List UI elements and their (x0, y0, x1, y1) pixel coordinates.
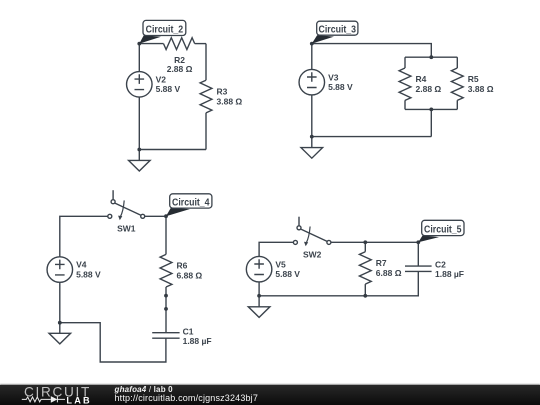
svg-text:V5: V5 (275, 259, 286, 269)
resistor R5 (451, 68, 463, 100)
svg-text:R4: R4 (416, 74, 427, 84)
wire V3 bottom stub (311, 95, 313, 137)
wire node down to R6 (165, 216, 167, 254)
node: circuit 3 top-left (310, 42, 314, 46)
switch SW1 (108, 190, 145, 220)
svg-text:V3: V3 (328, 72, 339, 82)
node: circuit 4 top (164, 214, 168, 218)
wire top rail left segment (139, 43, 163, 45)
wire V3 top stub (311, 44, 313, 70)
wire R7 bottom stub (364, 284, 366, 296)
flag box Circuit_4 (170, 194, 212, 208)
wire V4 bottom stub (59, 282, 61, 322)
wire right rail upper (205, 44, 207, 81)
wire top rail right segment (195, 43, 206, 45)
ground (circuit 3) (301, 137, 323, 159)
svg-text:Circuit_4: Circuit_4 (172, 196, 210, 208)
ground (circuit 5) (248, 296, 270, 318)
wire top rail (312, 44, 432, 58)
node: circuit 2 ground (137, 148, 141, 152)
node: circuit 2 top-left (137, 42, 141, 46)
wire bottom return path (60, 323, 166, 362)
node: circuit 5 R7 top (363, 240, 367, 244)
voltage source V3 (299, 69, 325, 95)
resistor R2 (164, 38, 195, 50)
node: circuit 3 parallel bottom (429, 108, 433, 112)
flag wedge Circuit_4 (166, 208, 190, 216)
svg-text:V2: V2 (156, 74, 167, 84)
CircuitLab logo (0, 384, 110, 405)
svg-text:3.88 Ω: 3.88 Ω (468, 84, 494, 94)
node: circuit 4 mid wire upper (164, 294, 168, 298)
wire switch to node rail (331, 241, 418, 243)
svg-text:C2: C2 (435, 260, 446, 270)
node: circuit 5 R7 bottom (363, 294, 367, 298)
svg-text:1.88 µF: 1.88 µF (183, 336, 212, 346)
footer url text (115, 393, 259, 403)
wire switch to left rail (60, 216, 108, 257)
resistor R6 (160, 254, 172, 287)
wire R4 bottom stub (404, 100, 406, 109)
node: circuit 4 mid wire lower (164, 307, 168, 311)
wire R4 top stub (404, 57, 406, 68)
wire V5 top stub to switch (259, 242, 293, 256)
wire bottom rail (259, 271, 418, 295)
wire R5 bottom stub (456, 100, 458, 109)
flag wedge Circuit_2 (139, 35, 161, 43)
resistor R7 (359, 252, 371, 284)
ground (circuit 2) (129, 150, 151, 172)
svg-text:5.88 V: 5.88 V (275, 269, 300, 279)
wire C2 top stub (417, 242, 419, 266)
wire bottom rail (139, 149, 206, 151)
flag box Circuit_3 (317, 21, 358, 35)
svg-text:5.88 V: 5.88 V (156, 84, 181, 94)
wire right down to bottom rail (430, 109, 432, 136)
svg-text:V4: V4 (76, 260, 87, 270)
svg-text:2.88 Ω: 2.88 Ω (167, 64, 193, 74)
wire V2 top stub (138, 44, 140, 72)
flag box Circuit_2 (143, 20, 186, 35)
footer bar (0, 385, 540, 405)
svg-text:Circuit_3: Circuit_3 (319, 24, 357, 36)
svg-text:Circuit_2: Circuit_2 (146, 23, 184, 35)
capacitor C1 (152, 333, 179, 339)
wire parallel bottom bar (405, 108, 457, 110)
svg-text:R5: R5 (468, 74, 479, 84)
svg-text:6.88 Ω: 6.88 Ω (376, 268, 402, 278)
wire R5 top stub (456, 57, 458, 68)
wire R7 top stub (364, 242, 366, 251)
svg-text:C1: C1 (183, 326, 194, 336)
svg-text:2.88 Ω: 2.88 Ω (416, 84, 442, 94)
flag wedge Circuit_5 (418, 235, 439, 242)
wire parallel top bar (405, 56, 457, 58)
svg-text:R3: R3 (217, 87, 228, 97)
net flags (139, 20, 464, 242)
wire right rail lower (205, 113, 207, 150)
node: circuit 4 ground (58, 321, 62, 325)
footer title text (115, 385, 173, 394)
flag wedge Circuit_3 (312, 35, 334, 44)
svg-text:SW1: SW1 (117, 223, 136, 233)
resistor R4 (399, 68, 411, 100)
flag box Circuit_5 (422, 220, 464, 235)
svg-text:SW2: SW2 (303, 250, 322, 260)
voltage source V5 (246, 256, 272, 282)
capacitor C2 (405, 266, 432, 271)
svg-text:LAB: LAB (66, 395, 91, 405)
svg-text:Circuit_5: Circuit_5 (424, 223, 462, 235)
wire V2 bottom stub (138, 97, 140, 149)
wire V5 bottom stub (258, 282, 260, 296)
wire bottom rail (312, 136, 432, 138)
wire R6 to C1 (165, 287, 167, 333)
switch SW2 (293, 217, 331, 247)
voltage source V4 (47, 257, 73, 283)
node: circuit 5 ground (257, 294, 261, 298)
resistor R3 (200, 80, 212, 113)
svg-text:5.88 V: 5.88 V (328, 82, 353, 92)
svg-text:5.88 V: 5.88 V (76, 270, 101, 280)
svg-text:1.88 µF: 1.88 µF (435, 269, 464, 279)
ground (circuit 4) (49, 323, 71, 344)
node: circuit 5 C2 top (416, 240, 420, 244)
svg-text:R6: R6 (177, 261, 188, 271)
svg-text:3.88 Ω: 3.88 Ω (217, 97, 243, 107)
svg-text:6.88 Ω: 6.88 Ω (177, 271, 203, 281)
svg-text:R7: R7 (376, 258, 387, 268)
node: circuit 3 parallel top (429, 55, 433, 59)
voltage source V2 (127, 72, 153, 98)
wire switch to node (145, 215, 166, 217)
node: circuit 3 ground (310, 135, 314, 139)
